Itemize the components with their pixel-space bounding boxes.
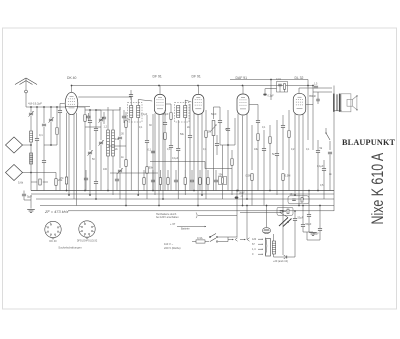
value label 6 xyxy=(180,133,185,136)
svg-text:DF 91: DF 91 xyxy=(153,75,162,79)
capacitor 50µF right xyxy=(313,205,322,240)
value label 12 xyxy=(272,153,275,156)
resistor 47k xyxy=(60,177,68,184)
socket label D-series xyxy=(77,240,98,243)
capacitor tone 2 xyxy=(328,152,332,190)
tube V5 pins xyxy=(295,114,303,206)
logo BLAUPUNKT xyxy=(342,138,396,147)
capacitor row osc a xyxy=(86,113,90,121)
wire link 2 xyxy=(205,162,232,169)
svg-text:0,1: 0,1 xyxy=(148,149,152,152)
svg-text:0,1µF: 0,1µF xyxy=(317,165,324,168)
svg-text:10n: 10n xyxy=(290,193,295,196)
svg-text:0,1: 0,1 xyxy=(39,133,43,137)
svg-text:100: 100 xyxy=(103,168,108,171)
svg-text:2M: 2M xyxy=(208,131,211,134)
caption Sockelschaltungen xyxy=(58,246,82,250)
wire osc link xyxy=(85,127,126,146)
svg-text:ZF = 473 kHz: ZF = 473 kHz xyxy=(44,209,68,214)
capacitor det 2 xyxy=(226,110,230,191)
svg-text:1,2: 1,2 xyxy=(104,126,108,129)
IF T2 leads xyxy=(184,118,186,196)
svg-text:4,8-19,2pF: 4,8-19,2pF xyxy=(28,102,42,106)
capacitor 100pF det xyxy=(218,121,222,145)
fuse 0,3A xyxy=(192,236,209,243)
label DL92 xyxy=(295,76,304,80)
capacitor 30µF electrolytic xyxy=(235,192,246,199)
label +20 xyxy=(273,260,288,263)
svg-text:5µF: 5µF xyxy=(27,195,32,199)
value label 3 xyxy=(139,126,143,129)
mains switch arm xyxy=(240,213,292,227)
battery note text xyxy=(156,213,197,220)
capacitor 0,1 out xyxy=(317,160,326,199)
value label 4 xyxy=(149,124,152,127)
resistor 2M xyxy=(163,110,167,191)
value label 19 xyxy=(211,113,217,116)
wire grid V1 xyxy=(58,104,65,191)
label DF91 b xyxy=(192,75,201,79)
ground xyxy=(27,210,35,213)
resistor row r7 xyxy=(199,170,201,191)
svg-text:0,5M: 0,5M xyxy=(285,175,291,178)
wire link 3 xyxy=(110,172,158,174)
svg-text:DAF 91: DAF 91 xyxy=(236,76,248,80)
capacitor AF3 xyxy=(275,120,279,195)
capacitor row c6 xyxy=(190,170,194,191)
svg-text:0,01: 0,01 xyxy=(276,78,281,81)
label DAF91 xyxy=(236,76,248,80)
svg-text:+20 (and mb): +20 (and mb) xyxy=(273,260,288,263)
battery plug pin 1 xyxy=(252,238,263,241)
value label 8 xyxy=(203,148,207,151)
wire psu right xyxy=(307,232,320,240)
svg-text:0,5M: 0,5M xyxy=(246,175,252,178)
IF transformer T2 xyxy=(175,100,192,122)
IF T1 leads xyxy=(131,118,138,196)
capacitor input 1 xyxy=(35,107,39,191)
volume potentiometer 1M xyxy=(211,107,217,191)
wire PSU drop 1 xyxy=(228,190,238,237)
value label 9 xyxy=(225,128,228,131)
wire xyxy=(96,107,120,110)
wire xyxy=(214,107,221,120)
oscillator coil L3 xyxy=(107,107,110,191)
resistor grid V5 xyxy=(288,110,290,191)
resistor 0,5M a xyxy=(246,125,254,206)
resistor input xyxy=(44,107,58,146)
battery plug pin 2 xyxy=(252,243,263,246)
battery +67V lead xyxy=(170,222,206,231)
power switch xyxy=(209,234,224,238)
resistor row r2 xyxy=(159,170,161,191)
vibrator xyxy=(263,205,271,234)
value label 17 xyxy=(141,113,148,116)
svg-text:1M: 1M xyxy=(225,128,228,131)
tube V4 pins xyxy=(238,114,247,206)
capacitor 50µF osc xyxy=(115,173,119,191)
capacitor 0,01 top xyxy=(276,78,288,92)
wire coupling xyxy=(263,79,276,100)
capacitor row osc b xyxy=(102,112,106,124)
capacitor 50pF xyxy=(88,110,92,150)
ground psu xyxy=(303,232,317,236)
value label 14 xyxy=(306,148,310,151)
oscillator coil L4 xyxy=(112,110,115,195)
resistor grid V3 xyxy=(205,110,211,199)
capacitor 100pF xyxy=(94,110,98,199)
svg-text:350pF: 350pF xyxy=(309,95,317,98)
rail D (filament +) xyxy=(40,205,334,207)
wire anode supply top xyxy=(71,85,313,87)
coil L-ant 2 xyxy=(30,153,33,164)
tone network box xyxy=(277,207,293,215)
capacitor grid V3 xyxy=(188,104,192,191)
wire det xyxy=(220,118,235,146)
svg-text:25pF: 25pF xyxy=(163,113,169,116)
connector arrows xyxy=(228,238,250,242)
resistor dropping xyxy=(272,234,283,257)
svg-text:DL 32: DL 32 xyxy=(295,76,304,80)
capacitor 5µF xyxy=(22,191,32,209)
tuning capacitor 4,8-19,2pF xyxy=(28,107,33,131)
svg-text:+ 67: + 67 xyxy=(170,222,176,226)
wire link 1 xyxy=(150,161,205,163)
switch 2 xyxy=(210,238,224,242)
svg-text:120: 120 xyxy=(252,238,257,241)
capacitor 0,1µF stage1 xyxy=(145,115,154,199)
wire xyxy=(224,205,248,242)
capacitor bypass V2 xyxy=(172,120,180,199)
capacitor 50µF a xyxy=(293,210,304,257)
value label 1 xyxy=(103,168,108,171)
resistor 0,5M b xyxy=(281,115,290,211)
svg-text:DK 40: DK 40 xyxy=(49,239,57,243)
frame antenna L1 (diamond) xyxy=(6,137,32,153)
wire antenna to input xyxy=(26,106,90,108)
capacitor input 2 xyxy=(42,107,46,191)
battery plug housing xyxy=(266,239,271,257)
value label 0 xyxy=(92,158,95,161)
capacitor det extra xyxy=(215,135,219,155)
wire screen V5 xyxy=(312,83,332,151)
capacitor row osc c xyxy=(122,110,126,123)
svg-text:DF91,DAF91,DL92: DF91,DAF91,DL92 xyxy=(77,240,98,243)
capacitor row c9 xyxy=(214,170,218,191)
resistor 20k vertical xyxy=(31,173,63,191)
tube V2 DF91 xyxy=(154,86,165,115)
tube V1 DK40 xyxy=(65,86,78,115)
capacitor tone 1 xyxy=(316,140,323,191)
diode xyxy=(283,211,295,259)
svg-text:5,6k: 5,6k xyxy=(18,181,24,185)
svg-text:BLAUPUNKT: BLAUPUNKT xyxy=(342,138,396,147)
svg-text:220 V (Reihe): 220 V (Reihe) xyxy=(164,246,181,250)
resistor 30k xyxy=(125,112,127,206)
value label 13 xyxy=(291,148,295,151)
tube V4 DAF91 xyxy=(237,86,249,116)
label DK40 xyxy=(67,76,77,80)
value label 10 xyxy=(254,148,259,151)
wire speaker xyxy=(334,110,342,112)
capacitor grid V2 xyxy=(148,114,156,191)
padder capacitor xyxy=(117,107,122,199)
svg-text:0,3A: 0,3A xyxy=(197,236,203,240)
resistor 1M xyxy=(78,107,86,191)
tone switch xyxy=(325,128,330,150)
value label 2 xyxy=(121,156,124,159)
resistor AVC xyxy=(231,150,233,195)
capacitor 50µF b xyxy=(301,205,312,232)
svg-text:DK 40: DK 40 xyxy=(67,76,77,80)
tube V3 pins xyxy=(194,113,202,205)
wire anode V5 xyxy=(299,88,332,93)
label 0,1 xyxy=(39,133,43,137)
svg-text:bei 120V anschalten: bei 120V anschalten xyxy=(156,216,179,219)
capacitor 0,1µF AF xyxy=(250,105,261,132)
label 4,8-19,2pF xyxy=(28,102,42,106)
capacitor 0,1 psu xyxy=(307,190,311,232)
label DF91 xyxy=(153,75,162,79)
capacitor row c4 xyxy=(174,170,178,191)
rail E (chassis) xyxy=(68,210,334,212)
capacitor row osc d xyxy=(129,90,133,100)
battery plug pin 3 xyxy=(252,248,263,251)
svg-text:110 V ~: 110 V ~ xyxy=(164,242,174,246)
svg-text:1,4: 1,4 xyxy=(252,248,256,251)
rail C (grid bias) xyxy=(36,198,334,200)
resistor screen V2 xyxy=(166,104,174,191)
label 350pF xyxy=(309,92,320,104)
capacitor AF2 xyxy=(262,130,266,206)
output transformer xyxy=(333,94,340,112)
label ZF = 473 kHz xyxy=(44,209,68,214)
value label 16 xyxy=(329,173,332,176)
feedback box xyxy=(288,193,309,204)
resistor 5,6k xyxy=(18,179,48,185)
rail A (anode +) xyxy=(31,190,334,192)
resistor 1M AF xyxy=(257,131,259,191)
trimmer input xyxy=(48,107,53,145)
tube V3 DF91 xyxy=(193,86,204,115)
svg-text:50µF: 50µF xyxy=(306,223,312,226)
capacitor row c1 xyxy=(151,170,155,191)
resistor row r5 xyxy=(184,170,186,191)
value label 5 xyxy=(167,148,171,151)
frame antenna L2 (diamond) xyxy=(6,165,32,181)
value label 11 xyxy=(262,126,266,129)
resistor row r0 xyxy=(143,170,145,191)
loudspeaker xyxy=(341,94,358,112)
tube V2 pins xyxy=(155,113,163,205)
capacitor 0,1 osc xyxy=(84,170,88,191)
value label 18 xyxy=(163,113,169,116)
resistor row r3 xyxy=(167,170,169,191)
svg-text:Sockelschaltungen: Sockelschaltungen xyxy=(58,246,82,250)
tube V1 pins xyxy=(67,113,77,206)
svg-text:50pF: 50pF xyxy=(211,113,217,116)
plug bracket xyxy=(266,238,267,256)
model Nixe K 610 A xyxy=(369,153,387,225)
svg-text:0,1µF: 0,1µF xyxy=(141,113,148,116)
trimmer osc 1 xyxy=(87,150,92,195)
svg-text:Nixe K 610 A: Nixe K 610 A xyxy=(369,153,387,225)
IF transformer T1 xyxy=(78,97,152,122)
coil L-ant 1 xyxy=(30,131,33,191)
svg-text:Batterie: Batterie xyxy=(181,228,190,231)
socket diagram D-series xyxy=(79,221,95,239)
value label 7 xyxy=(187,126,190,129)
wire xyxy=(85,109,101,118)
trimmer osc 2 xyxy=(98,117,103,190)
resistor 3M xyxy=(269,125,271,191)
wire battery feed xyxy=(198,215,237,217)
wire output frame xyxy=(307,85,334,211)
svg-text:0,1µF: 0,1µF xyxy=(172,157,179,160)
resistor 25k boxed xyxy=(219,145,227,199)
svg-text:50µF: 50µF xyxy=(313,233,319,236)
tube V5 DL92 xyxy=(293,93,313,115)
svg-text:0,1µF: 0,1µF xyxy=(268,95,275,98)
socket label DK40 xyxy=(49,239,57,243)
resistor row r8 xyxy=(207,170,209,191)
mains label xyxy=(164,242,181,250)
antenna xyxy=(15,78,37,107)
rail junction dots xyxy=(66,190,319,212)
wire screen line xyxy=(230,80,308,86)
rail B (screen) xyxy=(31,193,334,195)
socket diagram DK40 xyxy=(45,221,61,239)
svg-text:DF 91: DF 91 xyxy=(192,75,201,79)
value label 15 xyxy=(320,184,324,187)
battery plug pin 4 xyxy=(252,253,263,256)
label coil values xyxy=(104,126,120,152)
label 30pF xyxy=(121,119,131,136)
